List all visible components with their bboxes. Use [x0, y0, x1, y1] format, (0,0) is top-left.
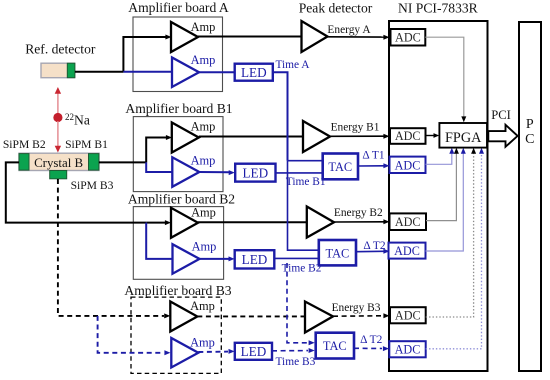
- svg-text:ADC: ADC: [394, 244, 420, 258]
- svg-text:SiPM B1: SiPM B1: [65, 138, 108, 151]
- board B2 box: [133, 207, 223, 280]
- wire Time A dashed down to TAC B3: [287, 263, 315, 345]
- route ADC6 to FPGA bottom (dotted gray): [426, 148, 476, 317]
- svg-text:P: P: [526, 117, 534, 132]
- svg-text:FPGA: FPGA: [445, 130, 482, 146]
- svg-text:ADC: ADC: [395, 31, 421, 45]
- ADC5 delta T2 (blue): [389, 243, 426, 259]
- wire Energy A to ADC1: [327, 24, 389, 40]
- board B3 box (dashed): [131, 297, 221, 373]
- label Ref. detector: [25, 42, 96, 57]
- TAC B3: [316, 333, 354, 359]
- svg-text:Time B2: Time B2: [282, 262, 322, 274]
- LED B1: [235, 164, 275, 182]
- wire Energy B2 to ADC4: [334, 207, 390, 224]
- svg-text:LED: LED: [241, 65, 267, 80]
- svg-text:Energy B1: Energy B1: [331, 122, 380, 134]
- LED B2: [235, 250, 275, 268]
- svg-text:Amplifier board B1: Amplifier board B1: [125, 101, 232, 116]
- wire Energy B3 to ADC6 (dashed): [332, 302, 390, 318]
- board B1 box: [133, 117, 223, 192]
- svg-text:SiPM B3: SiPM B3: [71, 179, 114, 192]
- svg-text:ADC: ADC: [395, 215, 421, 229]
- svg-text:Energy B2: Energy B2: [334, 207, 383, 219]
- ADC1 energy A: [391, 29, 426, 46]
- svg-text:Amp: Amp: [191, 120, 216, 134]
- svg-text:Amplifier board A: Amplifier board A: [128, 0, 229, 15]
- svg-text:Crystal B: Crystal B: [34, 156, 83, 170]
- wire black amp A to peak detector A: [198, 36, 302, 38]
- route ADC1 to FPGA top (gray): [425, 37, 466, 122]
- wire arrow into black amp B2: [146, 220, 171, 225]
- svg-text:Time A: Time A: [275, 59, 310, 71]
- ref detector crystal (cream with green SiPM end): [41, 63, 75, 77]
- TAC B2: [319, 240, 356, 265]
- ADC3 delta T1 (blue): [390, 157, 426, 173]
- ADC6 energy B3: [390, 307, 426, 323]
- wire black amp B1 to peak detector B1: [199, 136, 303, 138]
- peak detector B3: [305, 302, 333, 333]
- svg-text:ADC: ADC: [395, 309, 421, 323]
- title Amplifier board A: [128, 0, 229, 15]
- svg-text:C: C: [525, 132, 534, 147]
- label SiPM B2: [3, 138, 46, 151]
- wire junction B2 down to blue amp B2: [146, 223, 173, 259]
- wire ref detector to board A junction: [75, 71, 124, 73]
- blue amp B1: [172, 154, 215, 187]
- svg-text:TAC: TAC: [328, 160, 352, 174]
- svg-text:Amp: Amp: [191, 154, 216, 168]
- LED A: [235, 64, 273, 81]
- title Amplifier board B2: [128, 191, 235, 206]
- route ADC4 to FPGA bottom (gray): [426, 148, 459, 221]
- wire Time B1 from LED B1 to TAC B1: [276, 173, 326, 188]
- svg-text:Amp: Amp: [190, 336, 215, 350]
- wire black amp B3 to peak detector B3 (dashed): [197, 315, 305, 317]
- blue amp A: [172, 53, 215, 87]
- title NI PCI-7833R: [398, 1, 479, 16]
- title Amplifier board B3: [124, 283, 231, 298]
- wire dT2 TAC B3 to ADC7 (dashed): [354, 334, 389, 351]
- svg-text:LED: LED: [242, 252, 268, 267]
- NI PCI-7833R box: [389, 21, 488, 371]
- blue amp B3: [171, 336, 215, 368]
- svg-text:ADC: ADC: [395, 158, 421, 172]
- source arrow down to crystal B: [55, 121, 61, 153]
- wire junction A to blue amp A: [123, 71, 172, 73]
- ADC2 energy B1: [390, 128, 426, 144]
- route ADC3 to FPGA bottom (light blue): [426, 148, 455, 165]
- title Peak detector: [299, 1, 373, 16]
- route ADC5 to FPGA bottom (light blue): [426, 148, 466, 251]
- wire blue amp A to LED A: [199, 71, 235, 73]
- wire junction B1 down to blue amp B1: [146, 162, 172, 172]
- svg-text:Amplifier board B2: Amplifier board B2: [128, 191, 235, 206]
- black amp B3: [170, 299, 215, 332]
- LED B3: [235, 343, 272, 360]
- svg-text:TAC: TAC: [326, 247, 350, 261]
- blue amp B2: [173, 240, 217, 274]
- wire blue dashed branch to blue amp B3: [98, 316, 171, 355]
- black amp A: [171, 20, 215, 52]
- svg-text:Δ T2: Δ T2: [360, 334, 383, 346]
- black amp B2: [171, 205, 216, 238]
- wire dT2 TAC B2 to ADC5: [356, 240, 390, 254]
- wire SiPM B3 dashed down and to board B3: [58, 179, 170, 318]
- wire Time A branch into TAC B1: [288, 160, 323, 162]
- svg-text:Amp: Amp: [191, 20, 216, 34]
- svg-text:Ref. detector: Ref. detector: [25, 42, 96, 57]
- ADC7 delta T2 B3 (blue): [389, 341, 425, 357]
- svg-text:Δ T1: Δ T1: [362, 150, 385, 162]
- svg-text:Energy A: Energy A: [327, 24, 371, 36]
- source 22Na dot: [53, 113, 62, 122]
- PCI open arrow to PC: [488, 125, 517, 147]
- wire Time B3 from LED B3 to TAC B3 (dashed): [272, 348, 316, 368]
- svg-text:Amp: Amp: [190, 299, 215, 313]
- wire blue amp B2 to LED B2: [200, 256, 235, 261]
- TAC B1: [323, 154, 358, 180]
- title Amplifier board B1: [125, 101, 232, 116]
- route ADC7 to FPGA bottom (dotted blue): [426, 148, 484, 349]
- svg-text:SiPM B2: SiPM B2: [3, 138, 46, 151]
- source arrow up to ref detector: [55, 87, 61, 114]
- svg-text:NI PCI-7833R: NI PCI-7833R: [398, 1, 479, 16]
- svg-text:Time B1: Time B1: [286, 176, 326, 188]
- route ADC2 to FPGA left: [426, 133, 440, 138]
- svg-text:Amp: Amp: [192, 240, 217, 254]
- crystal B assembly: [19, 153, 99, 179]
- wire blue amp B3 to LED B3 (dashed): [198, 349, 234, 354]
- wire Time A down to TAC B2: [288, 161, 319, 251]
- label PCI: [491, 108, 511, 122]
- peak detector A: [302, 21, 328, 52]
- wire junction A up to black amp A: [123, 35, 171, 72]
- wire junction B1 up to black amp B1: [146, 135, 172, 162]
- board A box: [133, 17, 223, 92]
- svg-text:LED: LED: [241, 344, 267, 359]
- wire Time A from LED A down: [273, 59, 311, 161]
- PC box: [519, 22, 541, 371]
- label 22Na: [65, 112, 90, 128]
- svg-text:Δ T2: Δ T2: [363, 240, 386, 252]
- wire crystal left down to board B2: [6, 162, 146, 222]
- wire crystal right to board B1 junction: [99, 161, 146, 163]
- svg-text:ADC: ADC: [395, 129, 421, 143]
- wire dT1 TAC B1 to ADC3: [358, 150, 390, 169]
- svg-text:Amp: Amp: [191, 53, 216, 67]
- ADC4 energy B2: [390, 213, 427, 230]
- svg-text:Time B3: Time B3: [276, 356, 316, 368]
- peak detector B1: [303, 121, 330, 152]
- svg-text:TAC: TAC: [323, 339, 347, 353]
- svg-text:LED: LED: [242, 165, 268, 180]
- wire blue amp B1 to LED B1: [199, 170, 235, 175]
- black amp B1: [172, 120, 216, 153]
- wire Energy B1 to ADC2: [330, 122, 390, 139]
- label SiPM B1: [65, 138, 108, 151]
- wire Time B2 from LED B2 to TAC B2: [274, 258, 321, 274]
- svg-text:Peak detector: Peak detector: [299, 1, 373, 16]
- wire black amp B2 to peak detector B2: [198, 221, 307, 223]
- svg-text:Amplifier board B3: Amplifier board B3: [124, 283, 231, 298]
- svg-text:PCI: PCI: [491, 108, 511, 122]
- FPGA: [439, 123, 487, 148]
- label SiPM B3: [71, 179, 114, 192]
- peak detector B2: [307, 207, 334, 238]
- svg-text:ADC: ADC: [395, 343, 421, 357]
- svg-text:Energy B3: Energy B3: [332, 302, 381, 314]
- svg-text:Amp: Amp: [191, 205, 216, 219]
